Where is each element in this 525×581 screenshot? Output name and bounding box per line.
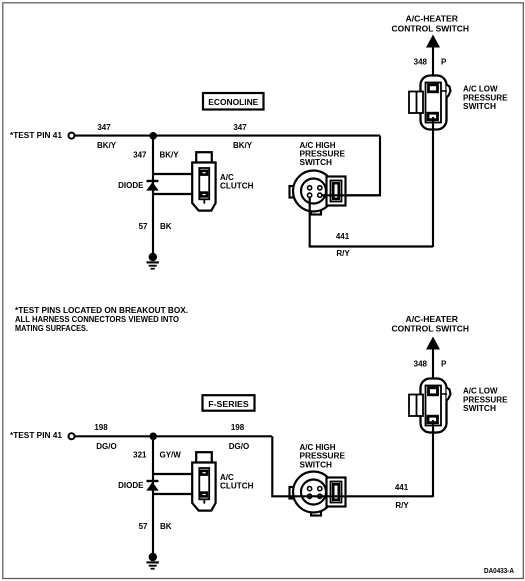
wire vertical from junction to ground (top) (152, 136, 154, 254)
pin 3 (top) (308, 193, 312, 197)
arrow to A/C-heater control switch (top) (426, 35, 440, 48)
label A/C-HEATER CONTROL SWITCH (bottom) (392, 315, 470, 334)
wire 347 BK/Y main horizontal (top) (75, 135, 380, 137)
note text (15, 306, 188, 333)
wire 348 P (bottom) (432, 349, 434, 389)
svg-text:BK/Y: BK/Y (97, 141, 117, 150)
svg-text:BK: BK (160, 222, 172, 231)
svg-text:347: 347 (97, 123, 111, 132)
wire from high pressure switch right pin to corner (top) (320, 194, 381, 196)
svg-text:348: 348 (414, 57, 428, 66)
wire branch to clutch bottom contact (bottom) (153, 493, 201, 495)
wire branch to clutch top contact (top) (153, 173, 201, 175)
label A/C-HEATER CONTROL SWITCH (top) (392, 14, 470, 33)
svg-text:DA0433-A: DA0433-A (484, 568, 514, 575)
svg-text:F-SERIES: F-SERIES (208, 400, 249, 409)
svg-text:CLUTCH: CLUTCH (220, 482, 254, 491)
svg-text:SWITCH: SWITCH (463, 404, 496, 413)
svg-text:347: 347 (233, 123, 247, 132)
connector: A/C low pressure switch (bottom) (409, 379, 451, 433)
junction node (top) (149, 132, 157, 140)
connector: A/C high pressure switch (bottom) (290, 472, 346, 516)
label A/C CLUTCH (top) (220, 173, 254, 191)
svg-text:DG/O: DG/O (229, 442, 249, 451)
svg-text:*TEST PINS LOCATED ON BREAKOUT: *TEST PINS LOCATED ON BREAKOUT BOX. (15, 306, 188, 315)
svg-text:GY/W: GY/W (160, 451, 182, 460)
svg-text:DIODE: DIODE (118, 181, 144, 190)
svg-text:P: P (441, 57, 447, 66)
svg-text:SWITCH: SWITCH (463, 102, 496, 111)
svg-text:A/C-HEATER: A/C-HEATER (406, 14, 459, 23)
svg-text:57: 57 (139, 522, 148, 531)
svg-text:441: 441 (395, 483, 409, 492)
diode (top) (146, 181, 158, 191)
ground (top) (147, 253, 159, 269)
svg-text:57: 57 (139, 222, 148, 231)
connector: A/C low pressure switch (top) (409, 76, 451, 130)
ground (bottom) (147, 553, 159, 569)
terminal: test pin 41 (top) (69, 133, 75, 139)
svg-text:A/C LOW: A/C LOW (463, 387, 498, 396)
svg-text:347: 347 (133, 151, 147, 160)
wire branch to clutch bottom contact (top) (153, 193, 201, 195)
svg-text:P: P (441, 359, 447, 368)
svg-text:BK: BK (160, 522, 172, 531)
svg-text:A/C LOW: A/C LOW (463, 85, 498, 94)
svg-text:MATING SURFACES.: MATING SURFACES. (15, 324, 88, 333)
wire corner down to high pressure switch (bottom) (272, 436, 290, 496)
svg-text:DIODE: DIODE (118, 481, 144, 490)
wire down from 347 wire corner to high pressure switch (top) (344, 136, 380, 196)
connector: A/C high pressure switch (top) (290, 171, 346, 215)
svg-text:*TEST PIN 41: *TEST PIN 41 (10, 431, 63, 440)
pin 4 (bottom) (318, 494, 322, 498)
label A/C CLUTCH (bottom) (220, 473, 254, 491)
wire 198 DG/O main horizontal (bottom) (75, 435, 272, 437)
svg-text:SWITCH: SWITCH (300, 460, 333, 469)
svg-text:198: 198 (231, 423, 245, 432)
diode (bottom) (146, 481, 158, 491)
svg-text:441: 441 (336, 232, 350, 241)
terminal: test pin 41 (bottom) (69, 433, 75, 439)
svg-text:198: 198 (94, 423, 108, 432)
wire vertical from junction to ground (bottom) (152, 436, 154, 554)
svg-text:A/C-HEATER: A/C-HEATER (406, 315, 459, 324)
wire from low pressure switch down to 441 wire (bottom) (432, 420, 434, 497)
svg-text:CLUTCH: CLUTCH (220, 182, 254, 191)
label A/C HIGH PRESSURE SWITCH (top) (300, 141, 346, 167)
pin 1 (bottom) (308, 487, 312, 491)
svg-text:CONTROL SWITCH: CONTROL SWITCH (392, 325, 470, 334)
svg-text:PRESSURE: PRESSURE (300, 452, 346, 461)
svg-text:R/Y: R/Y (336, 249, 350, 258)
pin 4 (top) (318, 193, 322, 197)
svg-text:CONTROL SWITCH: CONTROL SWITCH (392, 24, 470, 33)
pin 1 (top) (308, 186, 312, 190)
connector: A/C clutch (top) (192, 152, 215, 210)
svg-text:348: 348 (414, 359, 428, 368)
junction node (bottom) (149, 433, 157, 441)
svg-text:*TEST PIN 41: *TEST PIN 41 (10, 131, 63, 140)
label A/C LOW PRESSURE SWITCH (bottom) (463, 387, 508, 414)
svg-text:R/Y: R/Y (395, 501, 409, 510)
wire branch to clutch top contact (bottom) (153, 473, 201, 475)
wire 441 R/Y through high pressure switch (bottom) (290, 495, 433, 497)
arrow to A/C-heater control switch (bottom) (426, 337, 440, 350)
svg-text:ECONOLINE: ECONOLINE (208, 98, 259, 107)
F-SERIES box (203, 395, 255, 411)
wire from low pressure switch down to 441 wire (top) (432, 117, 434, 247)
svg-text:BK/Y: BK/Y (160, 151, 180, 160)
pin 2 (bottom) (318, 487, 322, 491)
svg-text:ALL HARNESS CONNECTORS VIEWED: ALL HARNESS CONNECTORS VIEWED INTO (15, 315, 179, 324)
label A/C HIGH PRESSURE SWITCH (bottom) (300, 443, 346, 469)
svg-text:BK/Y: BK/Y (233, 141, 253, 150)
pin 2 (top) (318, 186, 322, 190)
label A/C LOW PRESSURE SWITCH (top) (463, 85, 508, 112)
svg-text:SWITCH: SWITCH (300, 158, 333, 167)
ECONOLINE box (203, 93, 264, 110)
pin 3 (bottom) (308, 494, 312, 498)
svg-text:DG/O: DG/O (96, 442, 116, 451)
wire from high pressure switch bottom pin down and right (top) (310, 195, 433, 246)
svg-text:321: 321 (133, 451, 147, 460)
wire 348 P from arrow to low pressure switch (top) (432, 47, 434, 86)
connector: A/C clutch (bottom) (192, 452, 215, 510)
